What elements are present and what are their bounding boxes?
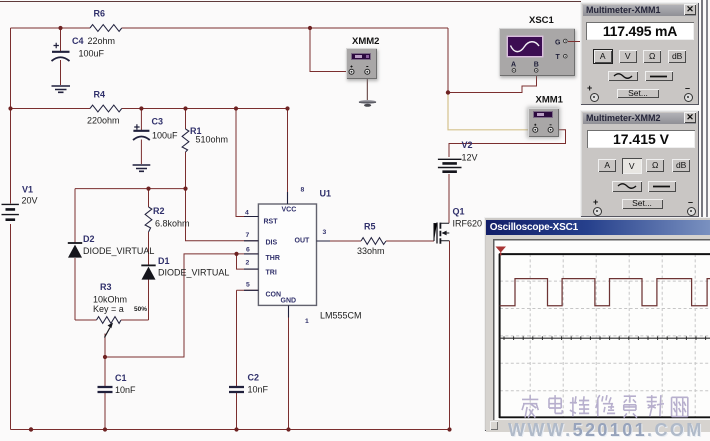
svg-text:DIS: DIS xyxy=(266,240,278,247)
svg-text:Q1: Q1 xyxy=(453,207,465,217)
svg-text:OUT: OUT xyxy=(295,238,311,245)
svg-text:R4: R4 xyxy=(94,90,106,100)
svg-text:10nF: 10nF xyxy=(115,385,136,395)
svg-text:DIODE_VIRTUAL: DIODE_VIRTUAL xyxy=(83,246,154,256)
svg-text:DIODE_VIRTUAL: DIODE_VIRTUAL xyxy=(158,268,229,278)
svg-text:22ohm: 22ohm xyxy=(88,36,116,46)
svg-text:XMM2: XMM2 xyxy=(352,36,379,47)
svg-text:33ohm: 33ohm xyxy=(357,246,385,256)
svg-text:7: 7 xyxy=(246,232,250,239)
svg-text:5: 5 xyxy=(246,282,250,289)
svg-text:C3: C3 xyxy=(152,117,164,127)
svg-text:6: 6 xyxy=(246,247,250,254)
svg-text:8: 8 xyxy=(301,187,305,194)
svg-text:C1: C1 xyxy=(115,373,127,383)
svg-text:RST: RST xyxy=(264,219,279,226)
svg-text:C4: C4 xyxy=(72,36,84,46)
svg-text:20V: 20V xyxy=(22,196,38,206)
svg-text:XMM1: XMM1 xyxy=(536,95,564,106)
svg-text:220ohm: 220ohm xyxy=(87,116,120,126)
svg-text:10nF: 10nF xyxy=(248,385,269,395)
svg-text:4: 4 xyxy=(245,210,249,217)
svg-text:2: 2 xyxy=(246,260,250,267)
svg-text:100uF: 100uF xyxy=(79,49,105,59)
svg-text:CON: CON xyxy=(266,292,282,299)
svg-text:GND: GND xyxy=(281,298,297,305)
svg-text:Key = a: Key = a xyxy=(93,304,124,314)
svg-text:LM555CM: LM555CM xyxy=(320,311,362,321)
svg-text:100uF: 100uF xyxy=(152,131,178,141)
svg-text:3: 3 xyxy=(323,229,327,236)
svg-text:V2: V2 xyxy=(462,140,473,150)
svg-text:THR: THR xyxy=(266,255,280,262)
svg-text:R2: R2 xyxy=(153,206,165,216)
svg-text:R5: R5 xyxy=(364,222,376,232)
svg-text:A: A xyxy=(511,62,516,69)
svg-text:VCC: VCC xyxy=(282,207,297,214)
svg-text:12V: 12V xyxy=(462,153,478,163)
svg-text:50%: 50% xyxy=(134,306,147,313)
svg-text:D1: D1 xyxy=(158,256,170,266)
svg-text:10kOhm: 10kOhm xyxy=(93,295,127,305)
svg-text:510ohm: 510ohm xyxy=(196,135,229,145)
svg-text:1: 1 xyxy=(305,318,309,325)
svg-text:XSC1: XSC1 xyxy=(529,15,555,26)
svg-text:TRI: TRI xyxy=(266,270,277,277)
svg-text:U1: U1 xyxy=(320,189,332,199)
svg-text:R6: R6 xyxy=(94,9,106,19)
svg-text:T: T xyxy=(556,54,561,61)
svg-text:D2: D2 xyxy=(83,234,95,244)
svg-text:IRF620: IRF620 xyxy=(453,219,483,229)
svg-text:R3: R3 xyxy=(100,282,112,292)
svg-text:V1: V1 xyxy=(22,185,33,195)
svg-text:B: B xyxy=(534,62,539,69)
svg-text:6.8kohm: 6.8kohm xyxy=(155,219,190,229)
svg-text:G: G xyxy=(555,40,561,47)
svg-text:C2: C2 xyxy=(248,373,260,383)
